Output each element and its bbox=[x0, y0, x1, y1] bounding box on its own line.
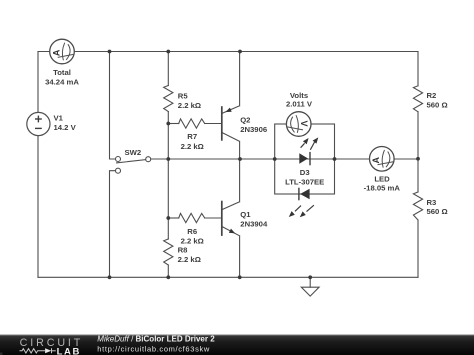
svg-text:Total: Total bbox=[53, 68, 71, 77]
svg-text:2.2 kΩ: 2.2 kΩ bbox=[181, 142, 204, 151]
svg-text:R2: R2 bbox=[427, 91, 437, 100]
svg-text:MikeDuff / BiColor LED Driver: MikeDuff / BiColor LED Driver 2 bbox=[97, 334, 215, 343]
svg-text:V: V bbox=[299, 120, 309, 126]
svg-text:Q2: Q2 bbox=[240, 116, 250, 125]
svg-text:Q1: Q1 bbox=[240, 210, 251, 219]
svg-text:R6: R6 bbox=[187, 227, 197, 236]
svg-text:SW2: SW2 bbox=[124, 148, 141, 157]
svg-text:R5: R5 bbox=[178, 92, 189, 101]
svg-text:D3: D3 bbox=[300, 168, 310, 177]
svg-text:LTL-307EE: LTL-307EE bbox=[285, 177, 324, 186]
svg-text:560 Ω: 560 Ω bbox=[427, 101, 448, 110]
svg-text:2.2 kΩ: 2.2 kΩ bbox=[178, 101, 201, 110]
svg-text:R3: R3 bbox=[427, 198, 437, 207]
svg-text:V1: V1 bbox=[54, 114, 64, 123]
svg-text:34.24 mA: 34.24 mA bbox=[45, 77, 79, 86]
svg-text:2N3904: 2N3904 bbox=[240, 219, 268, 228]
svg-text:2N3906: 2N3906 bbox=[240, 125, 267, 134]
svg-text:-18.05 mA: -18.05 mA bbox=[364, 183, 401, 192]
svg-text:2.2 kΩ: 2.2 kΩ bbox=[181, 237, 204, 246]
svg-text:http://circuitlab.com/cf63skw: http://circuitlab.com/cf63skw bbox=[97, 344, 210, 353]
svg-text:LED: LED bbox=[374, 174, 390, 183]
svg-text:2.2 kΩ: 2.2 kΩ bbox=[178, 255, 201, 264]
svg-text:R7: R7 bbox=[187, 132, 197, 141]
svg-text:A: A bbox=[51, 49, 61, 56]
svg-text:14.2 V: 14.2 V bbox=[54, 123, 77, 132]
svg-text:LAB: LAB bbox=[57, 347, 81, 355]
svg-text:2.011 V: 2.011 V bbox=[286, 100, 313, 109]
svg-text:R8: R8 bbox=[178, 246, 189, 255]
svg-text:560 Ω: 560 Ω bbox=[427, 207, 448, 216]
svg-text:A: A bbox=[371, 156, 381, 163]
